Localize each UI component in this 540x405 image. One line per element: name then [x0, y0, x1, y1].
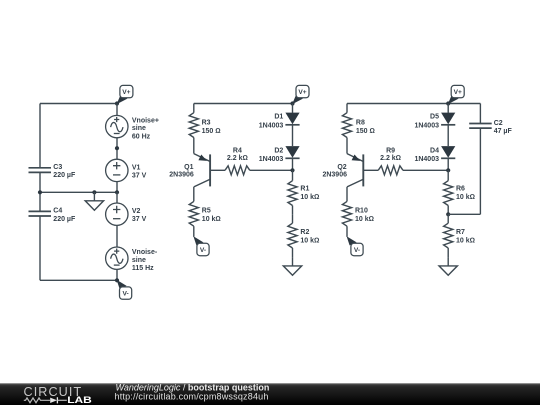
- wire top middle horizontal: [194, 103, 293, 105]
- transistor Q1 2N3906: [194, 154, 210, 187]
- svg-text:2.2 kΩ: 2.2 kΩ: [380, 155, 401, 162]
- node dot bottom left: [115, 278, 119, 282]
- svg-text:V+: V+: [122, 89, 130, 96]
- flag V+ (left): [117, 85, 133, 104]
- svg-text:Q2: Q2: [337, 164, 346, 171]
- label R4 2.2 kohm: [227, 147, 248, 162]
- flag V+ (middle): [292, 85, 309, 104]
- capacitor C2 branch wire lower: [479, 128, 481, 214]
- svg-text:D2: D2: [274, 147, 283, 154]
- svg-text:R10: R10: [355, 207, 368, 214]
- wire V2 to Vnoise-: [116, 225, 118, 247]
- svg-text:1N4003: 1N4003: [259, 156, 284, 163]
- label C2 47 uF: [494, 120, 513, 135]
- svg-text:V+: V+: [454, 89, 462, 96]
- resistor R2 10k: [288, 214, 297, 257]
- svg-text:1N4003: 1N4003: [259, 122, 284, 129]
- logo resistor squiggle and diode: [24, 397, 67, 403]
- svg-text:1N4003: 1N4003: [414, 156, 439, 163]
- svg-text:Q1: Q1: [184, 164, 193, 171]
- voltage source V2 37V: [106, 203, 128, 225]
- capacitor C4: [29, 211, 52, 216]
- svg-text:V-: V-: [122, 291, 128, 298]
- voltage source Vnoise+ sine 60Hz: [106, 115, 128, 137]
- svg-text:Vnoise-: Vnoise-: [132, 249, 158, 256]
- flag V- (middle column): [193, 236, 209, 256]
- wire left rail lower segment: [39, 216, 41, 280]
- node dot mid-left rail junction: [38, 190, 42, 194]
- svg-text:47 µF: 47 µF: [494, 128, 513, 135]
- diode D5 1N4003: [441, 104, 455, 147]
- label R7 10 kohm: [456, 229, 475, 244]
- label Q1 2N3906: [169, 164, 194, 179]
- label R5 10 kohm: [202, 207, 221, 222]
- label V1 37 V: [132, 164, 147, 179]
- diode D1 1N4003: [285, 104, 299, 147]
- svg-text:V-: V-: [200, 247, 206, 254]
- wire left rail between C3 and C4: [39, 172, 41, 210]
- node dot between Vnoise+ and V1: [115, 146, 119, 150]
- svg-text:C4: C4: [53, 207, 62, 214]
- svg-text:220 µF: 220 µF: [53, 172, 76, 179]
- resistor R4 2.2k: [210, 166, 292, 175]
- svg-text:220 µF: 220 µF: [53, 216, 76, 223]
- voltage source Vnoise- sine 115Hz: [106, 247, 128, 269]
- label R2 10 kohm: [300, 229, 319, 244]
- resistor R6 10k: [444, 170, 453, 214]
- resistor R1 10k: [288, 170, 297, 214]
- wire mid left horizontal: [40, 191, 117, 193]
- svg-text:10 kΩ: 10 kΩ: [355, 216, 374, 223]
- svg-text:R4: R4: [233, 147, 242, 154]
- svg-text:10 kΩ: 10 kΩ: [202, 216, 221, 223]
- svg-text:LAB: LAB: [67, 395, 92, 405]
- label Vnoise- sine 115 Hz: [132, 249, 158, 272]
- ground (left): [85, 192, 103, 210]
- resistor R10 10k: [342, 187, 351, 237]
- capacitor C2 47uF: [469, 124, 492, 129]
- svg-text:D1: D1: [274, 114, 283, 121]
- svg-text:R8: R8: [356, 120, 365, 127]
- svg-text:10 kΩ: 10 kΩ: [456, 194, 475, 201]
- svg-text:150 Ω: 150 Ω: [356, 128, 375, 135]
- svg-text:V2: V2: [132, 208, 141, 215]
- flag V- (right column): [347, 236, 364, 256]
- wire bottom left horizontal: [40, 279, 117, 281]
- svg-text:Vnoise+: Vnoise+: [132, 118, 159, 125]
- label D2 1N4003: [259, 147, 284, 163]
- wire V1 to mid rail: [116, 182, 118, 193]
- resistor R8 150 ohm: [342, 104, 351, 154]
- logo LAB text: [67, 395, 92, 405]
- wire Vnoise+ to V1: [116, 138, 118, 159]
- svg-text:V-: V-: [354, 247, 360, 254]
- diode D2 1N4003: [285, 146, 299, 170]
- wire top right horizontal: [347, 103, 480, 105]
- logo CIRCUIT text: [24, 385, 83, 399]
- svg-text:R7: R7: [456, 229, 465, 236]
- label D4 1N4003: [414, 147, 439, 163]
- node dot R9/D4/R6 junction: [446, 168, 450, 172]
- svg-text:10 kΩ: 10 kΩ: [456, 237, 475, 244]
- label D1 1N4003: [259, 114, 284, 130]
- resistor R3 150 ohm: [189, 104, 198, 154]
- svg-text:D5: D5: [430, 114, 439, 121]
- capacitor C3: [29, 168, 52, 173]
- flag V+ (right): [448, 85, 464, 104]
- svg-text:2N3906: 2N3906: [322, 172, 347, 179]
- svg-text:10 kΩ: 10 kΩ: [300, 194, 319, 201]
- node dot R4/D2/R1 junction: [290, 168, 294, 172]
- footer url line: [115, 392, 269, 402]
- svg-text:C2: C2: [494, 120, 503, 127]
- svg-text:2N3906: 2N3906: [169, 172, 194, 179]
- svg-text:V1: V1: [132, 164, 141, 171]
- ground (right): [439, 258, 457, 276]
- wire Vnoise- to bottom rail: [116, 269, 118, 280]
- wire mid rail to V2: [116, 192, 118, 203]
- svg-text:D4: D4: [430, 147, 439, 154]
- wire left rail upper segment: [39, 104, 41, 168]
- node dot mid source junction: [115, 190, 119, 194]
- svg-text:R5: R5: [202, 207, 211, 214]
- resistor R7 10k: [444, 214, 453, 257]
- svg-text:10 kΩ: 10 kΩ: [300, 237, 319, 244]
- node dot mid ground junction: [92, 190, 96, 194]
- voltage source V1 37V: [106, 159, 128, 181]
- svg-text:C3: C3: [53, 164, 62, 171]
- resistor R9 2.2k: [363, 166, 448, 175]
- capacitor C2 branch wire upper: [479, 104, 481, 124]
- node dot top of diode chain (middle): [290, 101, 294, 105]
- footer title line: [116, 382, 270, 392]
- label R8 150 ohm: [356, 120, 375, 135]
- svg-text:60 Hz: 60 Hz: [132, 133, 151, 140]
- label R10 10 kohm: [355, 207, 374, 222]
- label R3 150 ohm: [202, 120, 221, 135]
- svg-text:R3: R3: [202, 120, 211, 127]
- capacitor C3 value label: [53, 164, 76, 179]
- svg-text:R9: R9: [386, 147, 395, 154]
- diode D4 1N4003: [441, 146, 455, 170]
- node dot R6/R7/C2 junction: [446, 212, 450, 216]
- resistor R5 10k: [189, 187, 198, 237]
- svg-text:R6: R6: [456, 185, 465, 192]
- svg-text:V+: V+: [298, 89, 306, 96]
- label Q2 2N3906: [322, 164, 347, 179]
- label D5 1N4003: [414, 114, 439, 130]
- capacitor C4 value label: [53, 207, 76, 222]
- svg-text:sine: sine: [132, 125, 146, 132]
- label R1 10 kohm: [300, 185, 319, 200]
- wire junction to C2 branch: [448, 213, 480, 215]
- svg-text:37 V: 37 V: [132, 172, 147, 179]
- svg-text:1N4003: 1N4003: [414, 122, 439, 129]
- svg-text:37 V: 37 V: [132, 216, 147, 223]
- svg-text:150 Ω: 150 Ω: [202, 128, 221, 135]
- svg-text:R2: R2: [300, 229, 309, 236]
- label Vnoise+ sine 60 Hz: [132, 118, 159, 141]
- ground (middle): [283, 258, 301, 276]
- svg-text:2.2 kΩ: 2.2 kΩ: [227, 155, 248, 162]
- svg-text:R1: R1: [300, 185, 309, 192]
- label V2 37 V: [132, 208, 147, 223]
- svg-text:sine: sine: [132, 257, 146, 264]
- node dot top left: [115, 101, 119, 105]
- label R9 2.2 kohm: [380, 147, 401, 162]
- transistor Q2 2N3906: [347, 154, 363, 187]
- svg-text:115 Hz: 115 Hz: [132, 265, 154, 272]
- svg-text:http://circuitlab.com/cpm8wssq: http://circuitlab.com/cpm8wssqz84uh: [115, 392, 269, 402]
- wire V+ node to Vnoise+: [116, 104, 118, 116]
- label R6 10 kohm: [456, 185, 475, 200]
- wire top left horizontal: [40, 103, 117, 105]
- flag V- (left column): [117, 280, 132, 300]
- node dot top of diode chain (right): [446, 101, 450, 105]
